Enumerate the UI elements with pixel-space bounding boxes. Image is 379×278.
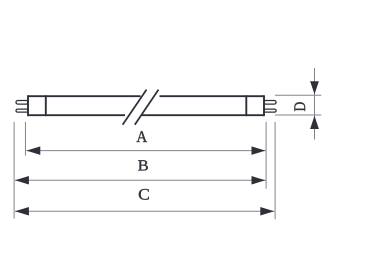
arrowhead C right [260, 207, 274, 216]
left pin top [16, 101, 28, 105]
D top extension line [275, 94, 321, 96]
dimension line D (vertical) [314, 68, 316, 140]
label A [136, 131, 147, 142]
left cap divider [45, 95, 47, 116]
dimension line B [15, 179, 265, 181]
dimension line A [26, 150, 265, 152]
arrowhead B right [252, 176, 266, 185]
right extension line (cap face) [265, 122, 267, 189]
right pin top [264, 101, 276, 105]
right pin bottom [264, 109, 276, 112]
extension lines [14, 95, 321, 219]
arrowhead B left [15, 176, 29, 185]
tube top edge right segment [160, 95, 265, 97]
arrowhead A left [26, 146, 40, 155]
left extension line (cap face) [24, 122, 26, 156]
right cap divider [245, 95, 247, 116]
dimension line C [15, 210, 274, 212]
tube top edge left segment [28, 95, 141, 97]
tube bottom edge right segment [142, 114, 264, 116]
left extension line (pin end) [13, 122, 15, 219]
tube bottom edge left segment [28, 114, 125, 116]
lamp tube outline (glass body, broken) [28, 95, 264, 116]
break lines (length break symbol) [123, 90, 159, 125]
label C [139, 189, 149, 200]
right end cap face [263, 95, 265, 116]
label B [138, 160, 148, 170]
right extension line (pin end) [274, 122, 276, 219]
arrowhead D bottom (pointing up) [310, 116, 319, 129]
arrowhead D top (pointing down) [310, 81, 319, 94]
arrowhead A right [252, 146, 266, 155]
label D (rotated) [294, 102, 305, 111]
D bottom extension line [275, 114, 321, 116]
left end cap face [27, 95, 29, 116]
left pin bottom [16, 109, 28, 112]
arrowhead C left [15, 207, 29, 216]
